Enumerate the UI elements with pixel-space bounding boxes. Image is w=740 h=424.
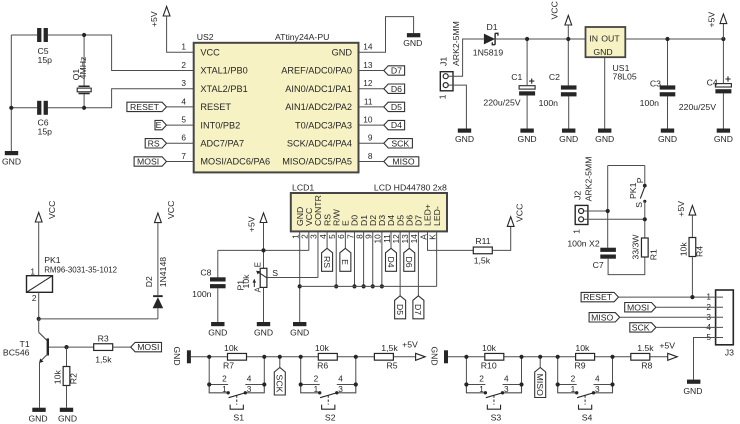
wire to R2 bbox=[66, 347, 68, 366]
resistor R10 10k bbox=[485, 353, 504, 360]
svg-text:VCC: VCC bbox=[200, 48, 220, 58]
wire +5V down to P1 bbox=[263, 223, 265, 269]
net flag RESET bbox=[127, 102, 167, 111]
svg-text:D7: D7 bbox=[391, 66, 402, 76]
power VCC bbox=[35, 212, 42, 222]
svg-text:BC546: BC546 bbox=[3, 347, 30, 357]
svg-text:10k: 10k bbox=[241, 274, 251, 289]
svg-text:100n: 100n bbox=[640, 98, 659, 108]
regulator US1 78L05 bbox=[586, 27, 626, 57]
contact 1 bbox=[575, 391, 578, 394]
svg-text:MOSI: MOSI bbox=[627, 302, 649, 312]
wire LCD pin13 to D6 flag bbox=[408, 231, 410, 248]
junction bbox=[354, 355, 358, 359]
svg-text:S: S bbox=[272, 268, 278, 278]
junction bbox=[380, 284, 384, 288]
svg-text:XTAL1/PB0: XTAL1/PB0 bbox=[200, 66, 247, 76]
svg-text:15p: 15p bbox=[38, 55, 53, 65]
diode D2 1N4148 bbox=[153, 295, 163, 297]
ground bbox=[598, 129, 611, 133]
ground bbox=[293, 322, 306, 326]
junction bbox=[538, 355, 542, 359]
svg-text:C3: C3 bbox=[650, 78, 661, 88]
svg-text:C7: C7 bbox=[593, 260, 604, 270]
svg-text:1: 1 bbox=[572, 229, 582, 234]
svg-text:+5V: +5V bbox=[707, 12, 717, 28]
svg-text:MISO: MISO bbox=[591, 312, 613, 322]
junction bbox=[82, 106, 86, 110]
svg-text:4: 4 bbox=[595, 374, 600, 384]
power VCC bbox=[155, 213, 162, 223]
wire C8 to ground bbox=[217, 288, 219, 322]
svg-text:PK1: PK1 bbox=[628, 182, 638, 199]
svg-text:100n: 100n bbox=[192, 289, 211, 299]
wire LCD pin9 to bus bbox=[372, 231, 374, 286]
net flag RS bbox=[322, 248, 333, 271]
svg-text:GND: GND bbox=[518, 134, 537, 144]
S1 lever bbox=[229, 392, 247, 397]
wire C1 to ground bbox=[526, 96, 528, 129]
wire LCD pin8 to bus bbox=[363, 231, 365, 286]
svg-text:OUT: OUT bbox=[601, 34, 620, 44]
svg-text:1N5819: 1N5819 bbox=[473, 48, 504, 58]
wire MISO to J3 pin3 bbox=[620, 316, 723, 318]
svg-text:8: 8 bbox=[368, 151, 373, 161]
wire snubber top bbox=[608, 165, 645, 167]
svg-text:VCC: VCC bbox=[47, 201, 57, 219]
wire RS to pin6 bbox=[167, 142, 194, 144]
ic LCD1 HD44780 2x8 bbox=[291, 193, 447, 231]
net flag D6 bbox=[384, 84, 405, 93]
wire LCD pin7 to bus bbox=[353, 231, 355, 286]
wire +5V to VCC pin1 bbox=[167, 16, 194, 52]
contact 1 bbox=[318, 391, 321, 394]
wire D2 anode down bbox=[157, 308, 159, 319]
net flag E bbox=[155, 120, 167, 129]
junction bbox=[519, 382, 523, 386]
junction bbox=[721, 37, 725, 41]
svg-text:2: 2 bbox=[479, 374, 484, 384]
wire left vertical to C7 bbox=[607, 166, 609, 248]
svg-text:1: 1 bbox=[314, 384, 319, 394]
relay contact PK1 bbox=[644, 166, 646, 186]
wire R11 to VCC bbox=[492, 226, 510, 250]
svg-text:GND: GND bbox=[595, 134, 614, 144]
svg-text:GND: GND bbox=[2, 156, 21, 166]
junction bbox=[207, 382, 211, 386]
wire pin9 to SCK bbox=[359, 142, 384, 144]
wire D1 to regulator IN bbox=[495, 38, 585, 40]
svg-text:RESET: RESET bbox=[583, 292, 613, 302]
junction bbox=[371, 284, 375, 288]
svg-text:1: 1 bbox=[437, 94, 447, 99]
svg-text:2: 2 bbox=[181, 60, 186, 70]
svg-text:LCD HD44780 2x8: LCD HD44780 2x8 bbox=[374, 182, 447, 192]
svg-text:R11: R11 bbox=[475, 236, 490, 246]
net flag D6 bbox=[404, 248, 415, 271]
net flag MISO bbox=[384, 157, 419, 166]
svg-text:3: 3 bbox=[504, 384, 509, 394]
crystal Q1 4MHz bbox=[79, 86, 90, 93]
svg-text:1: 1 bbox=[222, 384, 227, 394]
wire C1 top bbox=[526, 39, 528, 86]
svg-text:IN: IN bbox=[589, 34, 598, 44]
junction bbox=[278, 355, 282, 359]
power +5V bbox=[720, 14, 727, 24]
svg-text:GND: GND bbox=[290, 327, 309, 337]
svg-text:14: 14 bbox=[363, 42, 373, 52]
svg-text:220u/25V: 220u/25V bbox=[679, 102, 716, 112]
svg-text:D4: D4 bbox=[386, 256, 396, 267]
wire regulator GND bbox=[604, 57, 606, 128]
resistor R4 10k bbox=[689, 238, 696, 257]
svg-text:R10: R10 bbox=[481, 360, 497, 370]
svg-text:+5V: +5V bbox=[402, 340, 418, 350]
svg-text:10k: 10k bbox=[53, 370, 63, 385]
wire RESET to J3 pin1 bbox=[619, 296, 724, 298]
wire J2 pin1 to R1 node bbox=[584, 218, 645, 220]
wire LCD pin1 to ground bus and ground bbox=[299, 231, 301, 322]
svg-text:S4: S4 bbox=[582, 413, 593, 423]
wire C4 top bbox=[722, 39, 724, 84]
S2 actuator bbox=[327, 395, 329, 404]
wire left button rail bbox=[191, 356, 416, 358]
net flag RS bbox=[145, 139, 166, 148]
wire rail to S3 left bbox=[465, 357, 467, 385]
svg-text:10: 10 bbox=[363, 115, 373, 125]
wire J3 pin5 to ground bbox=[694, 338, 724, 380]
svg-text:3: 3 bbox=[338, 384, 343, 394]
ground tap bbox=[187, 350, 191, 363]
junction bbox=[556, 382, 560, 386]
wire VCC to D2 cathode bbox=[157, 223, 159, 296]
wire E to pin5 bbox=[167, 124, 194, 126]
junction bbox=[643, 217, 647, 221]
svg-text:2: 2 bbox=[314, 374, 319, 384]
svg-text:ATtiny24A-PU: ATtiny24A-PU bbox=[275, 32, 329, 42]
svg-text:100n: 100n bbox=[539, 98, 558, 108]
svg-text:SCK/ADC4/PA4: SCK/ADC4/PA4 bbox=[287, 139, 352, 149]
wire rail to S2 left bbox=[300, 357, 302, 385]
capacitor C2 100n bbox=[561, 85, 577, 89]
junction bbox=[207, 355, 211, 359]
svg-text:VCC: VCC bbox=[515, 204, 525, 222]
svg-text:D1: D1 bbox=[486, 22, 497, 32]
contact 3 bbox=[244, 391, 247, 394]
svg-text:D2: D2 bbox=[144, 276, 154, 287]
wire crystal top bbox=[83, 35, 85, 86]
svg-text:2: 2 bbox=[222, 374, 227, 384]
wire P1 to ground bbox=[263, 287, 265, 322]
switch S1 bbox=[209, 385, 228, 393]
junction bbox=[525, 37, 529, 41]
svg-text:+5V: +5V bbox=[247, 216, 257, 232]
svg-text:P: P bbox=[635, 177, 645, 183]
svg-text:1: 1 bbox=[479, 384, 484, 394]
svg-text:GND: GND bbox=[254, 327, 273, 337]
svg-text:4: 4 bbox=[504, 374, 509, 384]
capacitor C3 100n bbox=[660, 85, 676, 89]
wire node to XTAL2/PB1 bbox=[84, 89, 194, 108]
svg-text:C2: C2 bbox=[549, 72, 560, 82]
svg-text:1,5k: 1,5k bbox=[381, 343, 398, 353]
net flag SCK bbox=[384, 139, 413, 148]
svg-text:GND: GND bbox=[208, 327, 227, 337]
svg-text:SCK: SCK bbox=[275, 375, 285, 393]
wire rail to S1 left bbox=[208, 357, 210, 385]
wire S contact to R1 bbox=[644, 201, 646, 238]
junction bbox=[665, 37, 669, 41]
junction bbox=[262, 382, 266, 386]
power +5V bbox=[163, 6, 170, 16]
svg-text:K: K bbox=[427, 234, 437, 240]
svg-text:ARK2-5MM: ARK2-5MM bbox=[451, 21, 461, 66]
wire +5V arrow to rail bbox=[722, 24, 724, 39]
svg-text:C1: C1 bbox=[511, 72, 522, 82]
ground bbox=[60, 408, 73, 412]
svg-text:R9: R9 bbox=[574, 360, 585, 370]
wire J1 pin1 to D1 bbox=[448, 39, 484, 76]
svg-text:GND: GND bbox=[593, 47, 612, 57]
svg-text:1.5k: 1.5k bbox=[637, 343, 654, 353]
ground bbox=[458, 129, 471, 133]
svg-text:D6: D6 bbox=[404, 256, 414, 267]
S2 lever bbox=[320, 392, 338, 397]
wire C5 to node bbox=[48, 34, 84, 36]
capacitor C7 100n X2 bbox=[600, 248, 616, 252]
ground bbox=[717, 129, 730, 133]
junction bbox=[352, 284, 356, 288]
svg-text:E: E bbox=[156, 120, 162, 130]
svg-text:GND: GND bbox=[332, 48, 353, 58]
switch S3 bbox=[466, 385, 485, 393]
wire crystal bottom bbox=[83, 94, 85, 108]
wire pin to D7 bbox=[359, 70, 384, 72]
wire rail to SCK flag bbox=[279, 357, 281, 368]
svg-text:MOSI: MOSI bbox=[137, 342, 159, 352]
svg-text:S2: S2 bbox=[325, 413, 336, 423]
power +5V bbox=[668, 353, 678, 360]
svg-text:4: 4 bbox=[338, 374, 343, 384]
svg-text:US2: US2 bbox=[197, 32, 214, 42]
junction bbox=[299, 382, 303, 386]
svg-text:1,5k: 1,5k bbox=[474, 255, 491, 265]
svg-text:D6: D6 bbox=[391, 84, 402, 94]
ground bbox=[661, 129, 674, 133]
svg-text:GND: GND bbox=[429, 347, 439, 366]
svg-text:S1: S1 bbox=[233, 413, 244, 423]
S3 lever bbox=[486, 392, 504, 397]
wire RESET to pin4 bbox=[167, 106, 194, 108]
resistor R1 33/3W bbox=[641, 238, 648, 257]
capacitor C8 100n bbox=[210, 277, 226, 281]
switch S4 bbox=[558, 385, 577, 393]
net flag MOSI bbox=[131, 342, 162, 351]
wire C2 to ground bbox=[568, 96, 570, 128]
transistor T1 BC546 bbox=[38, 319, 40, 332]
svg-text:J1: J1 bbox=[439, 57, 449, 66]
net flag SCK bbox=[630, 323, 656, 332]
net flag MISO bbox=[589, 313, 620, 322]
svg-text:10k: 10k bbox=[679, 242, 689, 257]
wire C7 to R1 bottom bbox=[608, 257, 645, 275]
svg-text:220u/25V: 220u/25V bbox=[483, 97, 520, 107]
junction bbox=[334, 284, 338, 288]
junction bbox=[690, 295, 694, 299]
power VCC bbox=[507, 217, 514, 227]
svg-text:10k: 10k bbox=[315, 343, 330, 353]
svg-text:9: 9 bbox=[368, 133, 373, 143]
wire LCD pin3 down bbox=[317, 231, 319, 277]
wire base to R3 bbox=[49, 346, 94, 348]
wire LCD pin2 down bbox=[308, 231, 310, 250]
svg-text:3: 3 bbox=[247, 384, 252, 394]
wire ground bus bbox=[300, 285, 437, 287]
contact 1 bbox=[227, 391, 230, 394]
ground bbox=[257, 322, 270, 326]
wire node to XTAL1/PB0 bbox=[84, 35, 194, 71]
wire rail to S2 right bbox=[355, 357, 357, 385]
wire LCD pin6 to E flag bbox=[344, 231, 346, 248]
ground bbox=[211, 322, 224, 326]
ground bbox=[562, 129, 575, 133]
svg-text:MISO: MISO bbox=[392, 157, 414, 167]
svg-text:RS: RS bbox=[148, 138, 160, 148]
svg-text:LCD1: LCD1 bbox=[292, 182, 314, 192]
svg-text:INT0/PB2: INT0/PB2 bbox=[200, 120, 240, 130]
wire collector node to D2 bbox=[39, 318, 158, 320]
svg-text:PK1: PK1 bbox=[44, 255, 61, 265]
svg-text:15p: 15p bbox=[38, 126, 53, 136]
svg-text:RM96-3031-35-1012: RM96-3031-35-1012 bbox=[44, 265, 117, 274]
svg-text:VCC: VCC bbox=[549, 1, 559, 19]
wire LCD pin11 to D4 flag bbox=[390, 231, 392, 248]
svg-text:2: 2 bbox=[571, 374, 576, 384]
wire rail to MISO flag bbox=[539, 357, 541, 368]
svg-text:10k: 10k bbox=[224, 343, 239, 353]
svg-text:1,5k: 1,5k bbox=[95, 355, 112, 365]
svg-text:R6: R6 bbox=[317, 360, 328, 370]
wire pin8 to MISO bbox=[359, 161, 384, 163]
junction bbox=[519, 355, 523, 359]
svg-text:13: 13 bbox=[363, 60, 373, 70]
wire C3 top bbox=[667, 39, 669, 85]
wire LCD pinA to R11 bbox=[428, 231, 474, 250]
svg-text:S: S bbox=[634, 202, 644, 208]
svg-text:D4: D4 bbox=[391, 120, 402, 130]
resistor R6 10k bbox=[318, 353, 337, 360]
wire J1 pin2 to ground bbox=[448, 85, 466, 128]
wire R2 to ground bbox=[66, 386, 68, 408]
svg-text:J3: J3 bbox=[725, 347, 734, 357]
svg-text:D5: D5 bbox=[391, 102, 402, 112]
svg-text:R4: R4 bbox=[695, 246, 705, 257]
net flag D7 bbox=[413, 296, 424, 319]
svg-text:MISO/ADC5/PA5: MISO/ADC5/PA5 bbox=[282, 157, 352, 167]
junction bbox=[299, 355, 303, 359]
svg-text:GND: GND bbox=[658, 134, 677, 144]
svg-text:1: 1 bbox=[571, 384, 576, 394]
wire pin14 to ground bbox=[359, 17, 414, 53]
junction bbox=[606, 209, 610, 213]
svg-text:78L05: 78L05 bbox=[613, 72, 637, 82]
svg-text:C4: C4 bbox=[707, 77, 718, 87]
wire R3 to MOSI flag bbox=[113, 346, 131, 348]
contact 1 bbox=[484, 391, 487, 394]
svg-text:ADC7/PA7: ADC7/PA7 bbox=[200, 139, 244, 149]
svg-text:R1: R1 bbox=[648, 249, 658, 260]
ground bbox=[407, 33, 420, 37]
svg-text:GND: GND bbox=[28, 413, 47, 423]
junction bbox=[610, 382, 614, 386]
wire C5 left bbox=[11, 34, 37, 36]
ground tap bbox=[444, 350, 448, 363]
connector J3 bbox=[716, 290, 734, 345]
svg-text:+5V: +5V bbox=[676, 201, 686, 217]
net flag D4 bbox=[386, 248, 397, 271]
wire J2 pin2 to C7 node bbox=[584, 210, 608, 212]
wire R4 to RESET net bbox=[691, 257, 693, 298]
connector J2 ARK2-5MM bbox=[575, 205, 588, 224]
svg-text:33/3W: 33/3W bbox=[630, 234, 640, 260]
ground bbox=[687, 380, 700, 384]
wire LCD pin14 to D7 flag bbox=[417, 231, 419, 295]
svg-text:T0/ADC3/PA3: T0/ADC3/PA3 bbox=[295, 120, 352, 130]
wire rail to S3 right bbox=[521, 357, 523, 385]
diode D1 1N5819 bbox=[484, 34, 495, 45]
resistor R9 10k bbox=[576, 353, 595, 360]
net flag MOSI bbox=[134, 157, 166, 166]
svg-text:+5V: +5V bbox=[659, 341, 675, 351]
contact 3 bbox=[501, 391, 504, 394]
svg-text:S3: S3 bbox=[491, 413, 502, 423]
svg-text:LED-: LED- bbox=[432, 206, 442, 226]
net flag D5 bbox=[384, 102, 405, 111]
svg-text:7: 7 bbox=[181, 151, 186, 161]
net flag D5 bbox=[395, 296, 406, 319]
svg-text:RESET: RESET bbox=[200, 102, 231, 112]
svg-text:J2: J2 bbox=[573, 191, 583, 200]
wire pin to D5 bbox=[359, 106, 384, 108]
wire emitter to ground bbox=[39, 363, 41, 408]
svg-text:R8: R8 bbox=[641, 360, 652, 370]
wire SCK to J3 pin4 bbox=[656, 326, 723, 328]
S3 actuator bbox=[493, 395, 495, 404]
svg-text:GND: GND bbox=[403, 38, 422, 48]
wire MOSI to pin7 bbox=[167, 161, 194, 163]
svg-text:SCK: SCK bbox=[632, 323, 650, 333]
svg-text:AIN1/ADC2/PA2: AIN1/ADC2/PA2 bbox=[285, 102, 352, 112]
svg-text:GND: GND bbox=[559, 134, 578, 144]
wire LCD pin4 to RS flag bbox=[326, 231, 328, 248]
power +5V bbox=[416, 353, 426, 360]
svg-text:XTAL2/PB1: XTAL2/PB1 bbox=[200, 84, 247, 94]
net flag D4 bbox=[384, 120, 405, 129]
capacitor C4 220u/25V bbox=[715, 84, 731, 87]
wire LCD pin12 to D5 flag bbox=[399, 231, 401, 295]
svg-text:MOSI/ADC6/PA6: MOSI/ADC6/PA6 bbox=[200, 157, 270, 167]
svg-text:12: 12 bbox=[363, 78, 373, 88]
resistor R8 1.5k bbox=[631, 353, 650, 360]
junction bbox=[610, 355, 614, 359]
wire +5V rail to LCD pin2 bbox=[218, 249, 309, 251]
power +5V bbox=[260, 213, 267, 223]
capacitor C6 bbox=[37, 101, 41, 115]
svg-text:4MHz: 4MHz bbox=[78, 57, 88, 80]
svg-text:1N4148: 1N4148 bbox=[158, 257, 168, 288]
junction bbox=[556, 355, 560, 359]
net flag MOSI bbox=[625, 303, 656, 312]
